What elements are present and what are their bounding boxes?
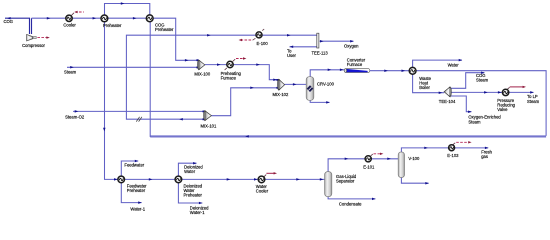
wire GLS top to E-101 to V-100	[328, 159, 398, 172]
reactor CRV-100	[306, 77, 314, 101]
svg-text:CRV-100: CRV-100	[317, 81, 335, 86]
svg-text:Steam: Steam	[476, 78, 489, 83]
waste heat boiler	[409, 67, 416, 74]
svg-text:Furnace: Furnace	[221, 75, 237, 80]
svg-text:Boiler: Boiler	[419, 85, 430, 90]
pressure reducing valve energy	[507, 87, 509, 89]
wire TEE-113 oxygen outlet	[320, 40, 354, 42]
pressure reducing valve	[502, 89, 508, 95]
svg-text:Water: Water	[448, 63, 460, 68]
line break symbol	[136, 117, 142, 122]
svg-text:Furnace: Furnace	[347, 62, 363, 67]
wire E-100 feed line and down branch to MIX-101	[126, 35, 316, 119]
svg-text:Preheater: Preheater	[127, 188, 146, 193]
preheating furnace	[227, 61, 233, 67]
E-103	[449, 145, 455, 151]
E-101	[365, 156, 371, 162]
wire water cooler to gas-liquid separator	[265, 178, 325, 180]
separator V-100	[398, 152, 404, 178]
svg-text:Water-1: Water-1	[190, 210, 205, 215]
wire steam feed	[67, 66, 198, 68]
wire TEE-104 middle outlet to pressure reducing valve	[450, 91, 534, 93]
wire MIX-100 outlet to preheating furnace to MIX-102	[205, 65, 278, 80]
tee TEE-104	[444, 87, 451, 97]
svg-text:gas: gas	[481, 154, 488, 159]
wire TEE-104 COG steam outlet	[450, 73, 484, 89]
svg-text:Water: Water	[184, 169, 196, 174]
svg-text:Steam: Steam	[64, 70, 77, 75]
svg-text:Cooler: Cooler	[63, 23, 76, 28]
wire furnace to waste heat boiler and recycle to COG preheater	[370, 71, 547, 136]
separator gas-liquid	[325, 172, 332, 197]
wire CRV-100 bottom product	[310, 100, 329, 102]
wire water-1 outlet	[121, 183, 141, 203]
wire feedwater inlet	[121, 161, 138, 176]
svg-text:Cooler: Cooler	[256, 188, 269, 193]
svg-text:Water-1: Water-1	[130, 206, 145, 211]
wire TEE-113 to user outlet	[290, 46, 317, 48]
svg-text:Steam-O2: Steam-O2	[65, 114, 85, 119]
svg-text:Condensate: Condensate	[339, 201, 362, 206]
E-100	[256, 32, 262, 38]
svg-text:COG: COG	[4, 19, 14, 24]
compressor K-100	[27, 34, 37, 41]
E-100 energy	[241, 39, 253, 41]
wire preheater down to feedwater preheater	[105, 22, 259, 180]
E-103 energy	[453, 143, 455, 145]
svg-text:TEE-104: TEE-104	[439, 99, 456, 104]
preheater	[101, 15, 108, 22]
wire WHB water outlet	[413, 60, 462, 67]
water cooler energy	[264, 175, 266, 177]
cooler	[66, 15, 72, 21]
compressor energy	[37, 37, 47, 39]
E-101 energy	[371, 154, 373, 156]
svg-text:E-100: E-100	[257, 41, 269, 46]
wire deionized water inlet	[178, 163, 196, 176]
wire bridge COG preheater to preheater	[105, 4, 150, 16]
mixer MIX-100	[197, 60, 204, 70]
svg-text:Preheater: Preheater	[103, 23, 122, 28]
wire main COG line to preheaters	[32, 18, 198, 60]
mixer MIX-101	[204, 111, 212, 121]
water cooler	[258, 176, 265, 183]
svg-text:Preheater: Preheater	[184, 192, 203, 197]
wire TEE-104 oxygen-enriched steam outlet	[450, 96, 471, 112]
svg-text:E-103: E-103	[447, 153, 459, 158]
wire V-100 bottom product	[401, 178, 428, 184]
wire steam-O2 feed	[73, 110, 204, 112]
svg-text:Steam: Steam	[468, 119, 481, 124]
svg-text:V-100: V-100	[408, 156, 420, 161]
svg-text:Valve: Valve	[497, 107, 508, 112]
svg-text:Feedwater: Feedwater	[124, 163, 144, 168]
wire MIX-101 outlet to MIX-102	[211, 88, 277, 116]
tee TEE-113	[317, 33, 319, 48]
wire compressor outlet riser	[31, 18, 33, 34]
wire GLS bottom condensate	[328, 197, 375, 199]
cooler energy	[72, 13, 75, 16]
svg-text:Separator: Separator	[336, 178, 355, 183]
wire MIX-102 outlet to CRV-100	[284, 83, 306, 85]
wire CRV-100 top to converter furnace	[310, 70, 344, 77]
COG preheater	[146, 15, 153, 22]
svg-text:Oxygen: Oxygen	[344, 43, 359, 48]
svg-text:Preheater: Preheater	[155, 27, 174, 32]
svg-text:TEE-113: TEE-113	[312, 50, 329, 55]
svg-text:MIX-102: MIX-102	[273, 92, 289, 97]
svg-text:MIX-100: MIX-100	[194, 72, 210, 77]
svg-text:MIX-101: MIX-101	[201, 124, 217, 129]
wire COG feed	[5, 18, 30, 34]
wire WHB bottom to TEE-104	[413, 74, 445, 92]
feedwater preheater	[118, 176, 125, 183]
deionized water preheater	[175, 176, 182, 183]
nubs at mixer bases	[196, 59, 278, 120]
wire deionized water-1 outlet	[178, 183, 202, 203]
svg-text:Compressor: Compressor	[22, 43, 45, 48]
svg-text:E-101: E-101	[363, 165, 375, 170]
svg-text:User: User	[287, 53, 296, 58]
converter furnace	[344, 69, 370, 73]
wire V-100 top to E-103 fresh gas	[401, 148, 488, 152]
mixer MIX-102	[277, 79, 284, 90]
svg-text:Steam: Steam	[527, 99, 540, 104]
preheating furnace energy	[233, 59, 236, 61]
